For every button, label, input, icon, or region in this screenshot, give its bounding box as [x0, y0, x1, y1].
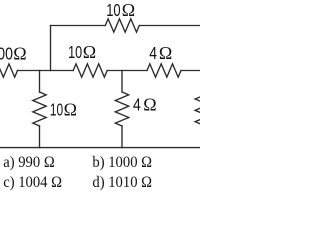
wire top-left segment — [51, 25, 106, 27]
resistor R 4ohm vertical zigzag — [115, 92, 128, 126]
wire bottom — [0, 147, 200, 149]
svg-text:10: 10 — [106, 1, 121, 21]
resistor R-top 10ohm zigzag — [105, 19, 139, 32]
svg-text:4: 4 — [133, 95, 141, 115]
svg-text:4: 4 — [149, 43, 157, 63]
wire vertical lead top of 4ohm vertical resistor — [121, 71, 123, 93]
resistor left partial (100 ohm) zigzag cut at left edge — [0, 64, 18, 77]
svg-text:b) 1000 Ω: b) 1000 Ω — [92, 155, 152, 171]
svg-text:c) 1004 Ω: c) 1004 Ω — [3, 175, 62, 191]
resistor R 10ohm vertical zigzag — [33, 92, 46, 126]
wire top-right segment — [139, 25, 200, 27]
wire middle segment 3 — [181, 70, 200, 72]
wire vertical lead bottom of 4ohm vertical resistor — [121, 126, 123, 148]
svg-text:Ω: Ω — [13, 43, 26, 63]
svg-text:10: 10 — [50, 100, 63, 120]
svg-text:Ω: Ω — [64, 99, 77, 119]
svg-text:Ω: Ω — [122, 0, 135, 20]
wire left vertical from top wire to middle wire — [50, 26, 52, 71]
svg-text:Ω: Ω — [159, 43, 172, 63]
wire vertical lead top of 10ohm vertical resistor — [39, 71, 41, 93]
wire middle segment 2 — [107, 70, 147, 72]
resistor R-mid 10ohm zigzag — [73, 64, 107, 77]
svg-text:Ω: Ω — [143, 95, 156, 115]
resistor R 4ohm horizontal zigzag — [147, 64, 181, 77]
svg-text:100: 100 — [0, 44, 13, 64]
svg-text:d) 1010 Ω: d) 1010 Ω — [92, 175, 152, 191]
svg-text:Ω: Ω — [83, 42, 96, 62]
resistor right-edge partial vertical zigzag cut at right edge — [195, 91, 208, 125]
svg-text:a) 990 Ω: a) 990 Ω — [3, 155, 55, 171]
svg-text:10: 10 — [68, 43, 82, 63]
wire middle segment 1 — [18, 70, 74, 72]
wire vertical lead bottom of 10ohm vertical resistor — [39, 126, 41, 148]
